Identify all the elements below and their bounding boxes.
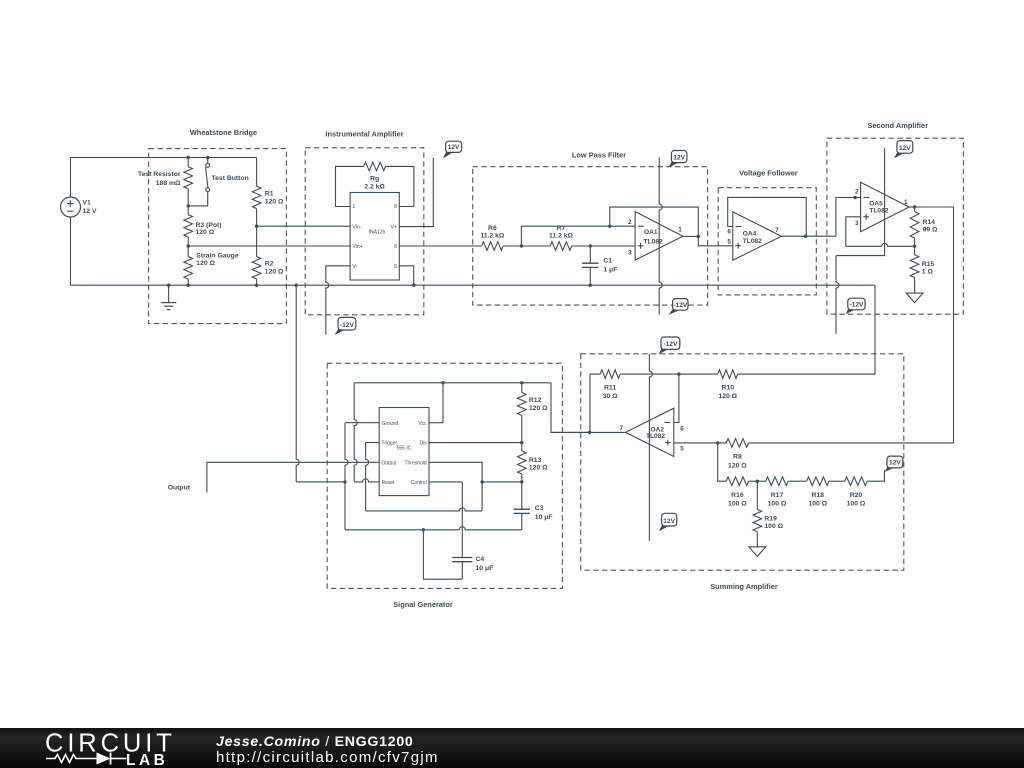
svg-text:Control: Control (411, 480, 427, 486)
junction: pin 5 / rail (412, 284, 415, 287)
capacitor C1 1 uF (582, 246, 617, 285)
resistor R13 120 Ohm (518, 443, 549, 482)
resistor Strain Gauge 120 Ohm (184, 246, 239, 285)
wire: main ground rail (V1 to second amplifier) (71, 284, 875, 286)
section title: Instrumental Amplifier (325, 130, 403, 139)
svg-text:1: 1 (904, 199, 908, 206)
wire: OA2 pin 6 riser (674, 374, 679, 422)
svg-text:7: 7 (775, 227, 779, 234)
wire: OA5 output (909, 206, 914, 208)
wire: R1 bottom to R2 top (crosses Vin+ wire) (256, 209, 258, 257)
wire: 555 Vcc rail (top) (354, 382, 551, 384)
power flag -12V (OA2) (659, 337, 680, 354)
wire: OA2 output to left (551, 431, 626, 433)
svg-text:120 Ω: 120 Ω (196, 260, 215, 267)
svg-text:3: 3 (628, 249, 632, 256)
wire: V1 bottom to ground rail (70, 217, 72, 285)
ground (earth) symbol (161, 285, 177, 309)
wire: feedback tap riser to OA1 inverting input (521, 226, 635, 246)
capacitor C4 10 uF (452, 555, 493, 579)
wire: OA1 power rail vertical (12V to -12V, hops feedback and rail) (659, 157, 662, 314)
junction: OA5 output / R14 (913, 205, 916, 208)
wire: OA4 feedback loop pin 6 (728, 197, 807, 236)
power flag -12V (OA5 V-) (846, 298, 866, 314)
svg-text:Output: Output (382, 460, 398, 466)
svg-text:R8: R8 (733, 454, 742, 461)
power flag 12V (OA5 V+) (894, 141, 913, 159)
svg-text:Ground: Ground (382, 421, 399, 427)
wire: V- pin to -12V supply (hops rail) (326, 266, 350, 335)
svg-text:6: 6 (727, 229, 731, 236)
wire: bridge output Vin+ (R3 node to INA126) (188, 245, 350, 247)
svg-text:555 IC: 555 IC (397, 445, 412, 451)
junction: R14 / R15 / feedback (913, 245, 916, 248)
svg-text:11.2 kΩ: 11.2 kΩ (549, 233, 574, 240)
wire: R20 to 12V flag stub (867, 470, 884, 481)
svg-text:30 Ω: 30 Ω (603, 393, 618, 400)
svg-text:5: 5 (394, 264, 397, 270)
dashed box: Summing Amplifier (581, 354, 904, 570)
svg-text:6: 6 (394, 244, 397, 250)
junction: R12 top (520, 381, 523, 384)
dashed box: Voltage Follower (718, 188, 816, 295)
dashed box: Second Amplifier (827, 138, 964, 314)
wire: R18 to R20 (829, 480, 845, 482)
junction: top rail / test resistor (187, 156, 190, 159)
wire: Rg to pin 8 (386, 166, 414, 206)
resistor Test Resistor 188 mOhm (138, 158, 193, 206)
svg-text:12V: 12V (899, 145, 911, 152)
svg-text:R19: R19 (764, 515, 777, 522)
dashed box: Wheatstone Bridge (149, 149, 287, 324)
svg-text:Vin+: Vin+ (352, 244, 362, 250)
section title: Low Pass Filter (572, 150, 626, 159)
svg-text:-12V: -12V (340, 322, 355, 329)
svg-text:TL082: TL082 (743, 238, 762, 245)
junction: OA1 pin 2 node (608, 225, 611, 228)
svg-text:R10: R10 (722, 384, 735, 391)
svg-text:R16: R16 (731, 492, 744, 499)
section title: Wheatstone Bridge (190, 128, 257, 137)
svg-text:5: 5 (727, 239, 731, 246)
junction: OA5 pin 2 (854, 196, 857, 199)
svg-text:100 Ω: 100 Ω (768, 501, 787, 508)
svg-text:OA1: OA1 (644, 229, 658, 236)
resistor R15 1 Ohm (910, 246, 934, 293)
svg-text:2.2 kΩ: 2.2 kΩ (364, 183, 385, 190)
resistor R2 120 Ohm (252, 257, 284, 286)
resistor R16 100 Ohm (726, 477, 748, 508)
resistor R3 (Pot) 120 Ohm (184, 206, 222, 246)
svg-text:-12V: -12V (663, 341, 678, 348)
section title: Second Amplifier (867, 121, 928, 130)
resistor R6 11.2 kOhm (480, 225, 505, 250)
junction: R6/R7/feedback tap (520, 244, 523, 247)
svg-text:188 mΩ: 188 mΩ (156, 180, 181, 187)
wire: OA4 output (782, 235, 836, 237)
power flag 12V (INA126 V+) (443, 141, 462, 158)
svg-text:V1: V1 (83, 199, 92, 206)
svg-text:C1: C1 (603, 258, 612, 265)
wire: Threshold node to R13 bottom (482, 481, 522, 483)
svg-text:99 Ω: 99 Ω (923, 227, 938, 234)
svg-text:R13: R13 (529, 457, 542, 464)
wire: R6 to R7 (503, 245, 550, 247)
wire: Reset tie to Vcc rail (hops ground+output wires) (354, 383, 379, 482)
power flag 12V (R20) (885, 456, 903, 472)
resistor R10 120 Ohm (718, 370, 738, 400)
svg-text:3: 3 (855, 220, 859, 227)
wire: bridge output Vin- (R1/R2 node to INA126) (257, 225, 351, 227)
op-amp OA5 TL082 triangle (855, 182, 909, 231)
svg-text:R6: R6 (488, 225, 497, 232)
svg-text:12V: 12V (889, 460, 901, 467)
svg-text:Vin-: Vin- (352, 225, 361, 231)
svg-text:100 Ω: 100 Ω (728, 501, 747, 508)
svg-text:TL082: TL082 (643, 238, 662, 245)
svg-text:120 Ω: 120 Ω (728, 462, 747, 469)
junction: feedback node (pin 6 riser) (677, 372, 680, 375)
wire: pin 1 to Rg loop (336, 166, 364, 206)
resistor R11 30 Ohm (600, 370, 620, 400)
wire: VF output up to OA5 inverting input (836, 198, 861, 237)
svg-text:120 Ω: 120 Ω (529, 405, 548, 412)
power flag -12V (INA126 V-) (335, 317, 356, 334)
wire: OA5 non-inverting input from R14/R15 divider (hops supply) (846, 217, 915, 247)
svg-text:R12: R12 (529, 397, 542, 404)
wire: OA2 pin 5 to R8 (674, 442, 726, 444)
junction: Threshold / Control-row node (480, 480, 483, 483)
wire: OA2 power vertical (-12V to 12V, hops R11 wire) (649, 354, 652, 541)
svg-text:Test Resistor: Test Resistor (138, 171, 181, 178)
svg-text:120 Ω: 120 Ω (196, 229, 215, 236)
junction: C1 / rail (589, 284, 592, 287)
junction: R13 bottom / C3 top (520, 480, 523, 483)
junction: OA2 output / R11 riser (588, 431, 591, 434)
junction: R3 / strain gauge / Vin+ node (187, 244, 190, 247)
svg-text:6: 6 (680, 425, 684, 432)
junction: R16 / R17 / R19 (756, 480, 759, 483)
svg-text:100 Ω: 100 Ω (764, 523, 783, 530)
junction: C4 return / bottom rail (422, 528, 425, 531)
junction: ground net / bridge rail drop (343, 480, 346, 483)
IC U1 555 body (379, 408, 429, 496)
svg-text:8: 8 (394, 204, 397, 210)
op-amp OA2 TL082 triangle (mirrored) (619, 408, 684, 456)
svg-text:11.2 kΩ: 11.2 kΩ (480, 233, 505, 240)
wire: V+ pin to 12V supply (399, 158, 433, 227)
dashed box: Signal Generator (327, 363, 562, 588)
junction: OA4 output / feedback (804, 235, 807, 238)
svg-text:Threshold: Threshold (404, 460, 426, 466)
svg-text:R20: R20 (850, 492, 863, 499)
junction: rail to 555 ground drop (295, 284, 298, 287)
section title: Voltage Follower (739, 169, 798, 178)
svg-text:R1: R1 (265, 191, 274, 198)
svg-text:-12V: -12V (849, 302, 864, 309)
svg-text:Reset: Reset (382, 480, 396, 486)
svg-text:OA4: OA4 (743, 231, 757, 238)
label: Output (168, 485, 191, 492)
svg-text:R14: R14 (923, 219, 936, 226)
svg-text:R17: R17 (771, 492, 784, 499)
wire: C4 return to bottom rail (423, 530, 462, 579)
wire: Dis pin to R12/R13 junction (429, 442, 522, 444)
svg-text:10 μF: 10 μF (535, 514, 553, 521)
wire: Ground pin to ground net (hops output wire) (345, 423, 379, 530)
svg-text:2: 2 (628, 219, 632, 226)
svg-text:12V: 12V (663, 518, 675, 525)
junction: test resistor / test button / R3 (187, 204, 190, 207)
junction: Vcc riser (441, 381, 444, 384)
wire: pin5 node drop to R16 (718, 443, 727, 481)
svg-text:Strain Gauge: Strain Gauge (196, 252, 239, 259)
section title: Summing Amplifier (710, 582, 778, 591)
wire: OA1 output (683, 235, 698, 237)
wire: 555 Output pin to Output stub (207, 462, 379, 492)
wire: signal generator bottom rail (hops C4 feed) (345, 527, 522, 530)
svg-text:LAB: LAB (126, 752, 168, 768)
wire: pin 5 to ground rail (399, 266, 413, 285)
svg-text:120 Ω: 120 Ω (265, 268, 284, 275)
svg-text:Instrumental Amplifier: Instrumental Amplifier (325, 130, 403, 139)
svg-text:Dis: Dis (419, 441, 427, 447)
junction: pin 5 / R16 drop (716, 441, 719, 444)
svg-text:120 Ω: 120 Ω (529, 465, 548, 472)
svg-text:R11: R11 (604, 384, 616, 391)
svg-text:Second Amplifier: Second Amplifier (867, 121, 928, 130)
wire: OA5 power vertical 12V (884, 148, 886, 250)
junction: top rail / test button (206, 156, 209, 159)
svg-text:2: 2 (855, 188, 859, 195)
wire: Vcc pin riser (429, 383, 443, 423)
junction: R12 / R13 / Dis (520, 441, 523, 444)
svg-text:Voltage Follower: Voltage Follower (739, 169, 798, 178)
ground symbol (R15) (906, 293, 923, 303)
logo diode glyph (97, 753, 111, 765)
svg-text:12V: 12V (673, 154, 685, 161)
wire: Control pin to C4 (429, 482, 462, 555)
wire: Vcc rail to OA2 output node (551, 383, 590, 433)
svg-text:R2: R2 (265, 261, 274, 268)
svg-text:V-: V- (352, 264, 357, 270)
wire: R7 to OA1 non-inverting input (572, 245, 635, 247)
svg-text:Rg: Rg (370, 176, 379, 183)
svg-text:1 Ω: 1 Ω (922, 269, 934, 276)
wire: R17 to R18 (788, 480, 807, 482)
dashed box: Low Pass Filter (473, 167, 708, 305)
svg-text:C4: C4 (476, 556, 485, 563)
resistor R8 120 Ohm (726, 439, 748, 470)
svg-text:100 Ω: 100 Ω (808, 501, 827, 508)
wire: bridge rail drop to 555 ground (hops output wire) (296, 285, 345, 482)
svg-text:R7: R7 (557, 225, 566, 232)
wire: pin 6 output to low pass filter (399, 245, 481, 247)
svg-text:5: 5 (680, 445, 684, 452)
resistor R7 11.2 kOhm (549, 225, 574, 250)
resistor R20 100 Ohm (845, 477, 867, 508)
svg-text:R15: R15 (922, 261, 935, 268)
svg-text:1: 1 (352, 204, 355, 210)
section title: Signal Generator (393, 600, 453, 609)
junction: C1 tap (589, 244, 592, 247)
wire: OA1 output to voltage follower (698, 236, 733, 245)
wire: OA5 power return to -12V (hops rail) (836, 250, 885, 334)
resistor R18 100 Ohm (807, 477, 829, 508)
wire: OA5 output loop to summing amplifier R8 (915, 207, 954, 443)
op-amp U2 INA126 body (350, 193, 399, 281)
svg-text:10 μF: 10 μF (476, 565, 494, 572)
svg-text:100 Ω: 100 Ω (847, 501, 866, 508)
resistor R12 120 Ohm (518, 383, 549, 443)
capacitor C3 10 uF (514, 482, 553, 530)
svg-text:1 μF: 1 μF (603, 266, 617, 273)
svg-text:Trigger: Trigger (382, 441, 398, 447)
svg-text:120 Ω: 120 Ω (718, 393, 737, 400)
svg-text:R3 (Pot): R3 (Pot) (196, 222, 222, 229)
svg-text:C3: C3 (535, 505, 544, 512)
resistor R19 100 Ohm (753, 481, 784, 547)
svg-text:R18: R18 (812, 492, 825, 499)
wire: R11 riser (590, 374, 600, 432)
wire: R11 to R10 (620, 373, 718, 375)
dashed box: Instrumental Amplifier (305, 148, 424, 315)
wire: R8 to OA5 output loop (749, 442, 954, 444)
svg-text:Low Pass Filter: Low Pass Filter (572, 150, 626, 159)
wire: V1 top to bridge top rail (71, 158, 257, 198)
svg-text:TL082: TL082 (869, 207, 888, 214)
power flag -12V (OA1 V-) (669, 299, 688, 315)
power flag 12V (OA1 V+) (668, 151, 687, 168)
op-amp OA4 TL082 triangle (727, 212, 781, 260)
power flag 12V (OA2) (659, 513, 677, 531)
resistor R1 120 Ohm (252, 158, 284, 209)
resistor Rg 2.2 kOhm (364, 162, 386, 190)
wire: R10 to ground rail riser (738, 285, 875, 374)
ground symbol (R19) (749, 547, 766, 557)
svg-text:Signal Generator: Signal Generator (393, 600, 453, 609)
voltage source V1 12 V (61, 197, 97, 217)
junction: R1 / R2 / Vin- node (255, 225, 258, 228)
svg-text:Test Button: Test Button (212, 175, 249, 182)
svg-text:1: 1 (678, 227, 682, 234)
wire: R16 to R17 (749, 480, 766, 482)
junction: ground tap (167, 284, 170, 287)
svg-text:7: 7 (619, 425, 623, 432)
svg-text:V+: V+ (391, 225, 398, 231)
svg-text:-12V: -12V (673, 302, 688, 309)
svg-text:12 V: 12 V (83, 208, 97, 215)
svg-text:Output: Output (168, 485, 191, 492)
svg-text:Summing Amplifier: Summing Amplifier (710, 582, 778, 591)
switch Test Button (188, 158, 249, 206)
logo resistor glyph (46, 755, 97, 763)
junction: strain gauge / rail (187, 284, 190, 287)
svg-text:Vcc: Vcc (418, 421, 427, 427)
resistor R14 99 Ohm (910, 207, 938, 246)
svg-text:120 Ω: 120 Ω (265, 198, 284, 205)
junction: OA1 output node (697, 235, 700, 238)
junction: R2 / rail (255, 284, 258, 287)
resistor R17 100 Ohm (766, 477, 788, 508)
CircuitLab logo (40, 728, 230, 768)
wire: OA1 feedback loop (610, 207, 699, 236)
svg-text:Wheatstone Bridge: Wheatstone Bridge (190, 128, 257, 137)
footer bar with CircuitLab logo and credits (0, 728, 1024, 768)
svg-text:12V: 12V (448, 144, 460, 151)
wire: Trigger to Threshold tie (hops output/reset wires) (366, 443, 483, 511)
svg-text:INA126: INA126 (369, 229, 386, 235)
op-amp OA1 TL082 triangle (628, 212, 683, 261)
